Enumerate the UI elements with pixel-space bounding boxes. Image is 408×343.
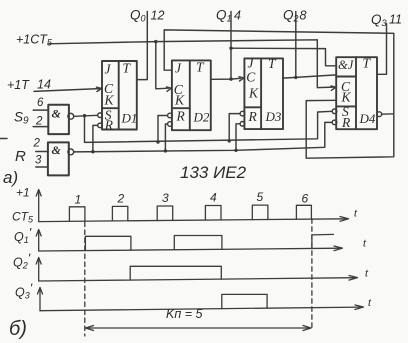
svg-text:Q2: Q2 [283, 8, 299, 24]
flip-flop D1 [102, 61, 137, 130]
flip-flop D4 [336, 57, 377, 129]
riser wire D1.R to R bus [93, 125, 98, 151]
svg-text:а): а) [3, 168, 18, 187]
D3 lower R inversion circle [240, 122, 245, 127]
R gate input wire pin 2 [36, 151, 48, 153]
svg-text:3: 3 [35, 155, 42, 167]
input label R with pins 2 3 [15, 138, 42, 167]
clock pulse 5 [252, 205, 268, 220]
svg-text:K: K [104, 93, 115, 108]
svg-text:12: 12 [151, 9, 165, 23]
Q2 pulse [130, 266, 221, 280]
svg-text:&: & [52, 143, 62, 157]
clock pulse 6 [296, 205, 311, 219]
wire CT5 branch to D2.C [156, 42, 169, 89]
wire Q1 to D4 AND-J input [231, 48, 336, 66]
clock pulse 3 [157, 206, 173, 221]
svg-text:R: R [341, 115, 351, 130]
input label +1CT5 [16, 33, 53, 48]
svg-text:Q2': Q2' [13, 252, 31, 271]
output label Q2 pin 8 [283, 8, 307, 24]
svg-text:Q1: Q1 [216, 8, 232, 24]
D4 pin labels [338, 56, 376, 131]
Q3 pulse [222, 294, 267, 308]
D1 C input arrow [97, 87, 102, 91]
dashed marker line at pulse 6 end [311, 219, 313, 331]
svg-text:K: K [248, 86, 259, 101]
D1 S input inversion circle [98, 113, 103, 118]
clock pulse 2 [112, 206, 127, 221]
input label +1T with pin 14 [7, 78, 51, 93]
clock pulse 1 [69, 207, 85, 222]
timing row +1/CT5 label [12, 186, 34, 225]
S9 bus wire to D2 D3 resets and D4.S [85, 111, 333, 142]
Q1 rising step at right [312, 234, 334, 248]
D2 C input arrow [167, 87, 172, 91]
timing row Q2' label [13, 252, 31, 271]
wire Q1 output pin 4 vertical [230, 12, 232, 80]
svg-text:t: t [363, 238, 367, 250]
svg-text:T: T [123, 61, 132, 76]
part label a) [3, 168, 18, 187]
D4 C input arrow [331, 86, 336, 90]
D4 S input inversion circle [332, 109, 337, 114]
D4 R input inversion circle [332, 120, 337, 125]
wire from D4 inverted output node around bottom to D4.K [306, 100, 394, 158]
D4 inverted output circle [377, 112, 382, 117]
output label Q0 pin 12 [130, 8, 164, 24]
svg-text:t: t [365, 268, 369, 280]
D2 lower R inversion circle [168, 122, 173, 127]
timing row 3 vertical axis [36, 258, 41, 282]
timing row 1 vertical axis [36, 190, 41, 222]
timing row 4 vertical axis [38, 288, 43, 311]
svg-text:t: t [354, 208, 358, 220]
R gate input wire pin 3 [36, 166, 48, 168]
svg-text:&J: &J [338, 58, 355, 72]
pulse numbers 1-6 [75, 190, 309, 207]
wire +1CT5 to D2.C and D4.C [48, 40, 334, 88]
svg-text:R: R [15, 148, 26, 165]
svg-text:11: 11 [389, 13, 402, 27]
svg-text:4: 4 [210, 191, 217, 205]
flip-flop D2 [172, 60, 211, 130]
svg-text:+1: +1 [16, 186, 30, 200]
wire Q2 output pin 8 vertical [295, 12, 297, 78]
wire +1T to D1.C [34, 89, 99, 92]
svg-text:6: 6 [302, 192, 309, 206]
svg-text:Q3': Q3' [15, 282, 33, 301]
svg-text:D3: D3 [265, 109, 282, 124]
riser wire D3 upper reset to S9 bus [229, 114, 240, 141]
svg-text:Q1': Q1' [14, 226, 32, 245]
D3 upper R inversion circle [240, 111, 245, 116]
timing row 4 time axis [40, 305, 364, 311]
AND gate for R inputs [48, 142, 69, 175]
R bus wire from R gate to D1 D2 D3 resets and D4.R [74, 122, 332, 151]
riser wire D2 lower reset to R bus [165, 124, 167, 151]
S9 gate input wire pin 6 [33, 109, 48, 111]
svg-text:2: 2 [33, 138, 41, 150]
svg-text:J: J [175, 61, 182, 76]
riser wire D3 lower reset to R bus [236, 124, 240, 151]
label Kp=5 [166, 307, 202, 321]
svg-text:R: R [176, 109, 186, 124]
svg-text:133 ИЕ2: 133 ИЕ2 [180, 163, 247, 182]
D3 C input arrow [239, 77, 244, 81]
output label Q3 pin 11 [371, 12, 402, 28]
svg-text:14: 14 [37, 78, 51, 92]
input label S9 with pins 6 2 [14, 97, 44, 128]
timing row 3 time axis [39, 276, 358, 282]
D2 upper R inversion circle [168, 113, 173, 118]
clock pulse 4 [205, 206, 221, 221]
svg-text:CT5: CT5 [12, 210, 34, 225]
Kp=5 span double arrow [86, 326, 312, 331]
part label b) [9, 318, 27, 340]
svg-text:&: & [52, 107, 62, 121]
timing row 2 vertical axis [36, 230, 41, 252]
D2 pin labels [174, 60, 210, 125]
svg-text:2: 2 [35, 116, 43, 128]
junction dots [83, 40, 298, 154]
svg-text:R: R [248, 109, 258, 124]
D3 pin labels [246, 56, 282, 125]
svg-text:8: 8 [300, 9, 307, 23]
D1 pin labels J T C K S R [104, 61, 138, 133]
svg-text:T: T [196, 60, 205, 75]
timing row Q3' label [15, 282, 33, 301]
svg-text:J: J [105, 62, 112, 77]
svg-text:2: 2 [117, 192, 125, 206]
svg-text:5: 5 [257, 190, 264, 204]
svg-text:J: J [248, 56, 255, 71]
flip-flop D3 [244, 58, 283, 129]
svg-text:4: 4 [234, 9, 241, 23]
svg-text:t: t [368, 297, 372, 309]
Q1 pulse A [85, 236, 130, 250]
R gate output inversion circle [68, 149, 74, 155]
chip type label 133 ИЕ2 [180, 163, 247, 182]
wire Q3 output pin 11 [377, 24, 387, 75]
svg-text:Q3: Q3 [371, 12, 387, 28]
svg-text:+1T: +1T [7, 78, 30, 92]
AND gate for S9 inputs [48, 105, 69, 134]
svg-text:C: C [246, 70, 256, 85]
timing row 1 time axis with arrow and t [39, 217, 349, 222]
stray mark at left edge [0, 138, 7, 140]
svg-text:3: 3 [162, 191, 169, 205]
S9 gate output inversion circle [68, 113, 74, 119]
svg-text:D1: D1 [121, 111, 138, 126]
svg-text:S9: S9 [14, 110, 29, 127]
D1 R input inversion circle [98, 123, 103, 128]
dashed marker line at pulse 1 end [84, 222, 86, 336]
svg-text:K: K [174, 93, 185, 108]
Q1 pulse B [174, 236, 222, 250]
wire Q0 output from D1 to pin 12 [137, 12, 148, 80]
svg-text:+1CT5: +1CT5 [16, 33, 53, 48]
svg-text:6: 6 [37, 97, 44, 109]
svg-text:K: K [341, 90, 352, 105]
svg-text:Kп = 5: Kп = 5 [166, 307, 202, 321]
output label Q1 pin 4 [216, 8, 241, 24]
wire D3 output to D4 AND-J input [283, 75, 336, 78]
S9 gate input wire pin 2 [33, 126, 48, 128]
svg-text:б): б) [9, 318, 27, 340]
svg-text:Q0: Q0 [130, 8, 146, 24]
timing row 2 time axis [39, 246, 343, 251]
timing row Q1' label [14, 226, 32, 245]
wire D2 output to D3.C [211, 78, 241, 79]
wire S9 gate output to D1.S [74, 115, 98, 116]
svg-text:1: 1 [75, 193, 82, 207]
svg-text:D2: D2 [193, 110, 210, 125]
svg-text:D4: D4 [359, 111, 376, 126]
riser wire D2 upper reset to S9 bus [158, 116, 167, 143]
feedback wire from D4 inverted output to D2.J [164, 30, 394, 114]
svg-text:R: R [104, 117, 114, 132]
